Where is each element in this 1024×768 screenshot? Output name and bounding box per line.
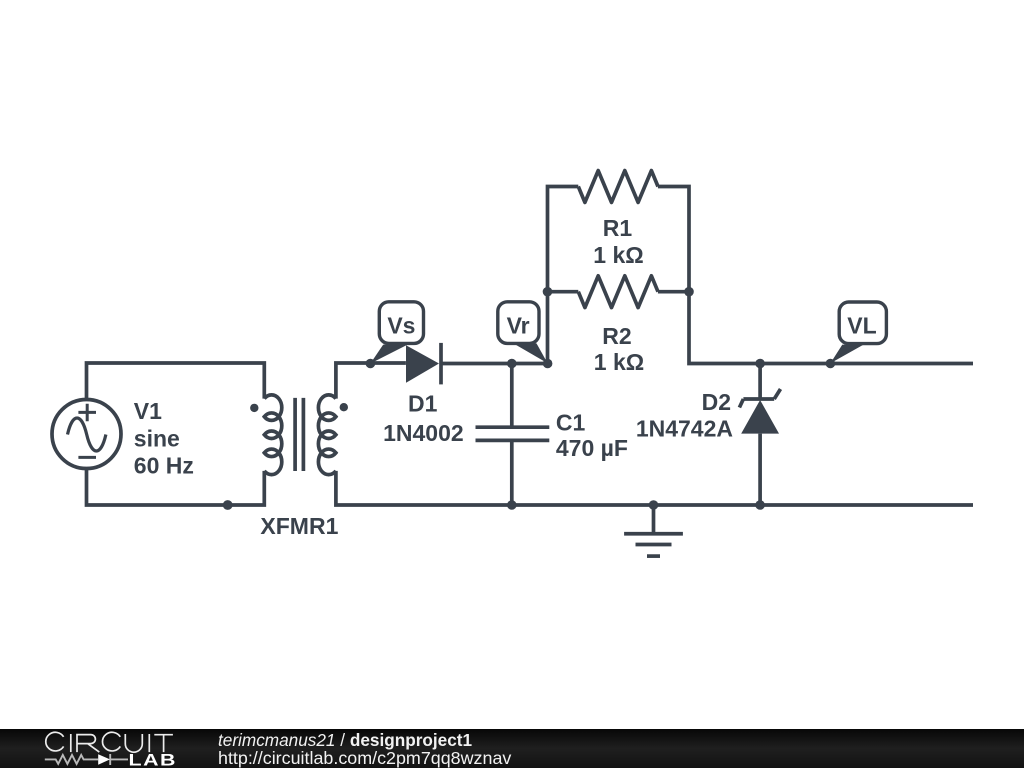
svg-text:1 kΩ: 1 kΩ [594, 349, 644, 375]
svg-text:XFMR1: XFMR1 [260, 513, 338, 539]
svg-text:60 Hz: 60 Hz [134, 453, 194, 479]
svg-text:470 µF: 470 µF [556, 435, 628, 461]
svg-text:R2: R2 [602, 323, 631, 349]
svg-text:LAB: LAB [129, 752, 177, 768]
svg-text:D2: D2 [702, 389, 731, 415]
svg-text:1N4742A: 1N4742A [636, 416, 733, 442]
svg-text:sine: sine [134, 425, 180, 451]
svg-text:Vr: Vr [507, 313, 530, 339]
svg-text:1 kΩ: 1 kΩ [593, 242, 643, 268]
svg-text:C1: C1 [556, 409, 586, 435]
svg-text:V1: V1 [134, 398, 162, 424]
svg-text:R1: R1 [603, 215, 633, 241]
svg-text:Vs: Vs [387, 313, 415, 339]
svg-text:1N4002: 1N4002 [383, 420, 464, 446]
svg-text:VL: VL [847, 313, 876, 339]
svg-text:D1: D1 [408, 390, 438, 416]
